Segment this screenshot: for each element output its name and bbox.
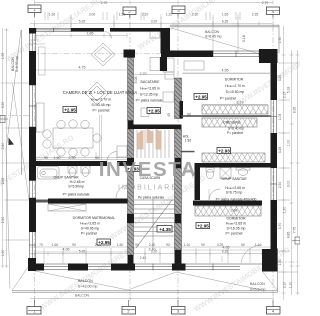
bathroom left bidet [81,166,90,173]
svg-text:2.10: 2.10 [142,13,149,17]
svg-text:90: 90 [44,156,48,160]
window left wall lower [30,232,36,258]
svg-text:P= piatra naturala 400x400: P= piatra naturala 400x400 [216,198,257,202]
balcony outlines [0,25,300,292]
bathroom left tub [38,167,60,180]
svg-text:S=33.45 mp: S=33.45 mp [92,103,111,107]
level box dressing [217,148,231,154]
svg-text:S=6.33 mp: S=6.33 mp [15,56,19,73]
left balcony rail line [21,30,23,175]
svg-text:3.19: 3.19 [237,101,244,105]
marker top C [172,6,185,14]
window right wall upper [271,100,277,133]
svg-text:5.35: 5.35 [79,250,86,254]
svg-text:5.18: 5.18 [287,87,291,94]
dormitor matrimonial label [73,216,116,236]
wall C bath top seg 2 [117,161,128,166]
svg-text:S=15.50 mp: S=15.50 mp [226,90,244,94]
left wall dark seg 1 [29,51,36,85]
bottom-right bedroom wardrobe band [195,206,261,216]
svg-text:2.30: 2.30 [69,156,76,160]
svg-text:4.95: 4.95 [63,248,70,252]
wall D thin part [36,200,48,203]
svg-text:+2.95: +2.95 [195,94,207,99]
svg-text:1.50: 1.50 [278,259,282,266]
svg-text:90: 90 [166,243,170,247]
door arc hol to bath [183,168,193,178]
left wall bottom corner [28,258,36,271]
wall B dark block 1 [175,158,182,168]
right wall dark seg 1 [271,63,278,100]
svg-text:+2.93: +2.93 [218,148,230,153]
svg-text:2.70: 2.70 [140,72,147,76]
bottom wall dark seg 4 [172,264,186,271]
left wall dark seg 2 [29,127,36,181]
svg-text:4.75: 4.75 [79,66,86,70]
svg-text:1.95: 1.95 [1,53,5,60]
wall C bath top seg 1 [36,161,107,166]
dining chairs left [43,130,51,138]
svg-text:3.20: 3.20 [151,20,158,24]
svg-text:P= parchet: P= parchet [227,131,243,135]
svg-text:S=49.95 mp: S=49.95 mp [81,227,99,231]
right dim line 3 [297,50,299,295]
svg-text:3.00: 3.00 [287,181,291,188]
top right balcony label [205,30,246,42]
svg-text:5.08: 5.08 [134,77,138,84]
level boxes [63,94,231,246]
right axis half bubble [295,237,300,244]
marker top D [267,7,280,15]
upper-right wall dark seg [161,51,213,58]
svg-text:2.55: 2.55 [1,178,5,185]
svg-text:DRESSING: DRESSING [223,121,241,125]
wall B stub kitchen [160,57,167,71]
stairs treads [134,130,174,248]
interior dim texts [44,32,244,252]
axis D vertical dash-dot [272,14,274,303]
left margin extension lines [8,83,29,240]
stairs center rail [152,198,154,248]
right margin extension lines [278,63,298,272]
top extension verticals [71,17,238,54]
svg-text:2.10: 2.10 [283,282,287,289]
dressing wardrobe cross band [202,118,257,127]
wall A dark block 1 [127,158,134,169]
hatched wall A upper (kitchen-living) [128,58,134,121]
window left wall upper [30,34,36,52]
svg-text:DORMITOR: DORMITOR [225,78,244,82]
svg-text:+2.95: +2.95 [148,108,160,113]
svg-text:90: 90 [72,243,76,247]
svg-text:2.60: 2.60 [1,143,5,150]
svg-text:2.15: 2.15 [283,92,287,99]
svg-text:2.40: 2.40 [149,243,156,247]
bottom dim line 1 [30,253,272,255]
level box bedroom BR [196,223,210,229]
top right balcony side [278,25,280,53]
bottom wall dark seg 2 [68,264,88,271]
svg-text:+4.35: +4.35 [159,227,171,232]
door threshold bottom right [240,263,262,265]
svg-text:P= parchet: P= parchet [92,109,109,113]
top wall dark seg 2 [110,28,166,32]
svg-text:GRUP SANITAR: GRUP SANITAR [53,176,79,180]
hall small lines [96,152,117,160]
wall B bottom seg [175,250,182,264]
svg-text:Hmax=2.65 m: Hmax=2.65 m [226,222,246,226]
bottom right balcony label [250,282,265,292]
tiny dim texts right rotated [278,37,297,289]
svg-text:5.35: 5.35 [79,20,86,24]
dining chairs bottom [57,148,65,156]
svg-text:Hmax=2.85 m: Hmax=2.85 m [140,87,160,91]
svg-text:P= parchet: P= parchet [81,232,98,236]
right wall dark seg 3 [271,200,278,250]
living room interior dim line 1.85 [36,35,127,37]
bedroom top right label [220,78,245,101]
dining chairs top [57,120,65,128]
left wall dark seg 3 [29,198,36,232]
left dim line [6,28,8,268]
svg-text:3.70: 3.70 [278,223,282,230]
svg-text:2.70: 2.70 [262,1,269,5]
svg-text:DORMITOR MATRIMONIAL: DORMITOR MATRIMONIAL [73,216,116,220]
marker bottom A [27,307,41,315]
grup sanitar left label [53,176,89,197]
svg-text:1.30: 1.30 [49,13,56,17]
svg-text:4.95: 4.95 [223,246,230,250]
wall F bedroom right top [193,201,262,206]
svg-text:S=12.35 mp: S=12.35 mp [140,93,158,97]
top-right bedroom wardrobe cross band [202,105,268,114]
bottom wall dark seg 5 [262,264,278,271]
left wall top corner [29,28,36,34]
svg-text:P= piatra naturala: P= piatra naturala [63,193,90,197]
upper-right corner block [259,49,278,63]
living room label [63,90,138,113]
left balcony rotated label [11,56,19,73]
window left wall mid [30,85,36,127]
svg-text:1.20: 1.20 [283,207,287,214]
svg-text:2.30: 2.30 [192,13,199,17]
window bottom wall segs [44,264,68,270]
wall A top column [124,50,136,58]
svg-text:BUCATARIE: BUCATARIE [141,80,161,84]
svg-text:1.10: 1.10 [184,243,191,247]
svg-text:1.60: 1.60 [54,156,61,160]
top dim ticks [35,15,274,19]
bathroom left wc [68,166,77,173]
left survey slant line [6,30,21,288]
svg-text:BALCON: BALCON [205,30,219,34]
axis C vertical dash-dot [177,13,179,302]
svg-text:90: 90 [201,243,205,247]
dressing lower wardrobe band [202,153,265,162]
svg-text:2.30: 2.30 [278,182,282,189]
svg-text:IMOBILIARE: IMOBILIARE [118,185,178,192]
marker bottom C [172,307,186,315]
svg-text:2.70: 2.70 [101,1,108,5]
top dim line 0 [35,2,274,4]
svg-text:+2.95: +2.95 [98,240,110,245]
casa scarii label [138,176,164,200]
marker top B [123,7,136,15]
svg-text:GRUP SANITAR: GRUP SANITAR [221,177,247,181]
svg-text:60: 60 [241,243,245,247]
svg-text:1.60: 1.60 [52,243,59,247]
svg-text:8.35: 8.35 [293,107,297,114]
bedroom TR desk along top [184,61,204,70]
window right wall lower [271,168,277,200]
hatched wall B (stairs right / kitchen-bedroom) [175,78,182,119]
wall B dark cap [180,101,184,119]
right wall dark seg 2 [271,133,278,168]
svg-text:2.35: 2.35 [252,13,259,17]
svg-text:2.40: 2.40 [149,248,156,252]
level box bedroom TR [194,94,208,100]
svg-text:1.50: 1.50 [117,243,124,247]
wall E kitchen bottom [128,125,182,130]
top right balcony outer edge [170,25,279,27]
baie door swing line [208,189,210,200]
svg-text:1.90: 1.90 [278,37,282,44]
svg-text:INVESTA: INVESTA [99,158,198,181]
svg-text:S=8.40 mp: S=8.40 mp [228,127,244,131]
kitchen label [136,80,163,103]
svg-text:H=2.65 m: H=2.65 m [70,180,85,184]
svg-text:S=5.90mp: S=5.90mp [68,185,84,189]
floor diamond 1 living room [91,43,115,66]
level box stairs hall [126,166,140,172]
dormitor bottom right label [225,217,246,236]
svg-text:7.75: 7.75 [293,227,297,234]
svg-text:BALCON: BALCON [75,294,89,298]
svg-text:3.30: 3.30 [1,102,5,109]
room labels [53,78,256,236]
beam line living [100,115,102,160]
marker top A [28,5,41,13]
svg-text:P= piatra naturala: P= piatra naturala [136,99,163,103]
svg-text:2.40: 2.40 [140,256,147,260]
svg-text:5.18: 5.18 [242,35,246,42]
marker bottom B [122,307,136,315]
bottom balcony label [78,279,97,289]
marker bottom D [267,307,281,315]
svg-text:CAMERA DE ZI + LOC DE LUAT MAS: CAMERA DE ZI + LOC DE LUAT MASA [63,90,138,95]
wall D bedroom matrimonial top [48,199,128,204]
dark wall segments [28,28,278,272]
svg-text:S=16.05 mp: S=16.05 mp [227,227,246,231]
hol label [183,135,192,143]
bedroom TR dim line [182,73,270,75]
floor diamond 2 living room [86,82,109,105]
svg-text:DORMITOR: DORMITOR [227,217,246,221]
bottom right corner block [262,249,278,272]
bottom extension lines [44,248,250,263]
svg-text:+2.95: +2.95 [197,223,209,228]
right dim line 1 [283,26,285,300]
watermark logo M shape [99,129,198,192]
bottom right balcony outer edge [277,248,279,293]
door arc bath right [209,189,220,200]
svg-text:Hmax=2.70 m: Hmax=2.70 m [91,98,111,102]
svg-text:1.65: 1.65 [222,13,229,17]
axis 1 horizontal dash-dot left [0,115,29,117]
svg-text:BALCON: BALCON [78,279,93,283]
tiny dim texts bottom [39,243,261,298]
svg-text:P= parchet: P= parchet [220,97,237,101]
wall G dressing top thin [182,115,271,117]
svg-text:3.25: 3.25 [278,147,282,154]
tiny dim texts top [49,1,269,24]
door arc hall [116,185,129,198]
interior span dim lines [36,70,270,252]
wall B dark block 2 [175,214,182,223]
wall A bottom seg [128,255,134,264]
bottom balcony diagonals [12,264,277,291]
bottom dim line 2 [30,246,272,248]
sill lines above bath wall [36,158,127,160]
svg-text:4.95: 4.95 [222,69,229,73]
hatched wall A lower (stairs left) [128,129,134,158]
top balcony diagonal [171,28,260,54]
bath right wc [206,169,213,179]
dressing bottom thin wall [182,151,195,153]
axis 1 horizontal dash-dot right [277,261,300,263]
bottom balcony edge dim line [30,298,272,300]
window upper-right wall [213,51,259,57]
grup sanitar right label [216,177,257,202]
right dim ticks [282,55,286,293]
svg-text:BALCON: BALCON [250,282,265,286]
left dim ticks [5,30,9,266]
balcony left corner triangle [9,138,15,146]
svg-text:Pe piatra naturala: Pe piatra naturala [138,196,164,200]
door arc living-bath [107,152,117,162]
bottom balcony outer edge [12,290,278,292]
dining table [53,128,93,148]
svg-text:S=8.45 mp: S=8.45 mp [205,35,222,39]
top-right corner step vertical [161,28,171,54]
svg-text:S=6.6 mp: S=6.6 mp [250,288,265,292]
svg-text:P= parchet: P= parchet [225,232,242,236]
level box kitchen [147,108,161,114]
wall A dark block 2 [127,214,134,223]
wall C right baie top [195,163,271,168]
svg-text:3.25: 3.25 [278,75,282,82]
bottom wall dark seg 3 [111,264,135,271]
svg-text:45: 45 [167,113,171,117]
top tick clusters [45,12,240,20]
small dim marks living left [29,40,45,44]
door arc bottom right balcony [241,245,262,263]
svg-text:3.00: 3.00 [89,13,96,17]
svg-text:2.90: 2.90 [1,217,5,224]
stairs up arrow line [136,200,172,248]
svg-text:Hmax=2.70 m: Hmax=2.70 m [225,84,245,88]
tiny dim texts left rotated [1,53,5,257]
top dim line 2 [30,23,272,25]
window left wall bath [30,181,36,199]
bath right sink [238,169,248,176]
right dim line 2 [291,50,293,295]
svg-text:1.90: 1.90 [185,139,191,143]
svg-text:Hmax=2.65 m: Hmax=2.65 m [225,186,245,190]
axis B vertical dash-dot [129,14,131,302]
svg-text:1.00: 1.00 [287,140,291,147]
dressing label [223,121,244,136]
left axis half bubble [0,116,5,123]
level box stairs landing [157,226,172,233]
left margin dim line 2 [2,28,4,268]
kitchen sink [150,30,160,38]
axis marker boxes [27,5,280,314]
svg-text:3.68: 3.68 [231,209,238,213]
left balcony diagonal [13,84,30,201]
svg-text:1.05: 1.05 [278,114,282,121]
kitchen pantry cabinets top [150,58,160,71]
tv stand living left [39,47,46,75]
axis A vertical dash-dot [34,12,36,303]
baie left wall [195,168,201,201]
kitchen fridge box [141,108,149,117]
extra detail linework [1,24,298,272]
svg-text:1.85: 1.85 [87,32,94,36]
svg-text:Hmax=2.65 m: Hmax=2.65 m [80,222,100,226]
bottom dim ticks [35,252,274,256]
bottom balcony outer edge second line [12,291,278,293]
svg-text:S=43.00 mp: S=43.00 mp [78,285,97,289]
door arc living-top [105,32,112,39]
level box bedroom matrimonial [97,239,111,245]
level box living [63,107,77,113]
kitchen dim line [134,74,174,76]
bath right shower [220,168,231,179]
kitchen counter top units [163,58,174,72]
bedroom matrimonial wardrobe top [48,204,86,211]
svg-text:S=6.75 mp: S=6.75 mp [226,191,243,195]
window lines top wall left [29,28,277,271]
cabinet right living [117,146,127,157]
top extension ticks row2 [71,24,238,28]
svg-text:+2.95: +2.95 [64,107,76,112]
furniture and fixtures [36,30,270,263]
wall A dark cap [128,121,134,130]
horizontal axis dash-dot inside living [29,53,160,55]
living sofa left wall [37,103,45,132]
bottom wall dark seg 1 [28,264,44,271]
svg-text:1.10: 1.10 [289,282,293,289]
svg-text:4.85: 4.85 [287,232,291,239]
bedroom BR window center tick [221,256,223,262]
svg-text:1.90: 1.90 [1,250,5,257]
svg-text:1.20: 1.20 [166,13,173,17]
stairs upper treads small [137,130,169,158]
top wall dark seg 1 [71,28,104,32]
dressing dim leader [202,105,268,117]
svg-text:6.35: 6.35 [222,20,229,24]
svg-text:70: 70 [39,243,43,247]
svg-text:1.50: 1.50 [119,13,126,17]
